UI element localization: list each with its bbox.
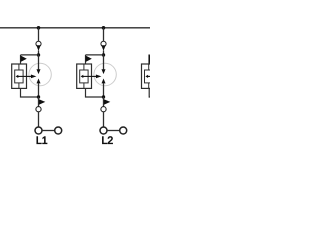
wire: trigger corner down to box (unit 3) — [148, 55, 150, 65]
junction on bus, L1 drop — [37, 26, 41, 30]
trigger unit box (outer) — [12, 64, 27, 88]
indicator contact circle — [101, 107, 106, 112]
spark gap tube F2 (circle) — [94, 63, 116, 85]
inner element top lead — [83, 64, 85, 70]
label L1 — [37, 137, 47, 144]
trigger output arrow to spark gap — [88, 75, 101, 79]
node: bottom junction — [102, 95, 105, 98]
electrode bottom (arrow up into gap) — [37, 79, 41, 98]
wire: trigger corner down to box — [85, 55, 87, 65]
electrode top (arrow down into gap) — [37, 55, 41, 74]
wire: disconnector to tap node — [38, 51, 40, 56]
inner element arrow (points left) — [16, 75, 24, 78]
trigger unit box outer (unit 3, clipped) — [142, 64, 157, 88]
junction on bus, L2 drop — [102, 26, 106, 30]
disconnector arrow (down) — [36, 45, 40, 51]
indicator contact circle — [36, 107, 41, 112]
status indicator flag — [39, 99, 45, 105]
inner element top lead (unit 3) — [148, 64, 150, 70]
trigger unit inner element box (unit 3) — [145, 70, 153, 83]
wire: down to indicator — [103, 97, 105, 107]
electrode bottom (arrow up into gap) — [102, 79, 106, 98]
disconnector contact circle (top) — [101, 41, 106, 46]
top bus wire (phase supply line) — [0, 27, 150, 29]
disconnector contact circle (top) — [36, 41, 41, 46]
inner element arrow (unit 3, points left) — [145, 75, 153, 78]
node: trigger tap junction — [102, 53, 105, 56]
wire: trigger tap horizontal — [21, 54, 39, 56]
terminal circle L2 (left) — [100, 127, 107, 134]
inner element bottom lead (unit 3) — [148, 83, 150, 89]
wire: terminal link — [107, 130, 120, 132]
wire: trigger corner down to box — [20, 55, 22, 65]
wire: trigger unit bottom return — [86, 88, 104, 97]
spark gap tube F1 (circle) — [29, 63, 51, 85]
label L2 — [102, 136, 112, 143]
terminal circle L1 (left) — [35, 127, 42, 134]
wire: terminal link — [42, 130, 55, 132]
wire: trigger unit bottom return (unit 3) — [149, 88, 150, 97]
terminal circle L1 (right) — [55, 127, 62, 134]
wire: trigger unit bottom return — [21, 88, 39, 97]
wire: trigger tap horizontal — [86, 54, 104, 56]
wire: L2 drop from bus — [103, 28, 105, 42]
trigger direction flag (unit 3, clipped) — [149, 56, 155, 63]
terminal circle L2 (right) — [120, 127, 127, 134]
node: bottom junction — [37, 95, 40, 98]
trigger unit box (outer) — [77, 64, 92, 88]
inner element top lead — [18, 64, 20, 70]
trigger direction flag — [21, 56, 27, 63]
trigger unit inner element box — [15, 70, 23, 83]
wire: disconnector to tap node — [103, 51, 105, 56]
inner element bottom lead — [83, 83, 85, 89]
disconnector arrow (down) — [101, 45, 105, 51]
node: trigger tap junction — [37, 53, 40, 56]
status indicator flag — [104, 99, 110, 105]
wire: to terminal L2 — [103, 112, 105, 127]
trigger output arrow to spark gap — [23, 75, 36, 79]
electrode top (arrow down into gap) — [102, 55, 106, 74]
wire: to terminal L1 — [38, 112, 40, 127]
inner element bottom lead — [18, 83, 20, 89]
wire: down to indicator — [38, 97, 40, 107]
trigger direction flag — [86, 56, 92, 63]
wire: L1 drop from bus — [38, 28, 40, 42]
inner element arrow (points left) — [81, 75, 89, 78]
trigger unit inner element box — [80, 70, 88, 83]
